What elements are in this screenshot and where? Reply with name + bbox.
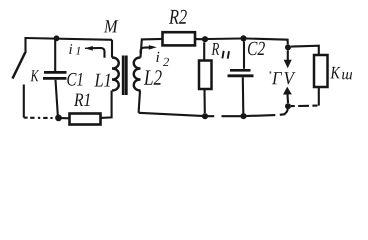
label C1 [67,73,82,86]
wire: node D to corner down to node E [247,39,288,45]
wire: loop2 bottom from L2 to node F [139,113,202,116]
transformer core [122,56,125,96]
node A junction dot bottom of C1 [55,115,62,122]
node E junction above down-arrow [285,44,291,50]
label Rn subscript strokes [222,51,229,59]
wire: node E to Ksh top corner [291,46,319,55]
wire: bottom-left dashed segment [24,117,53,120]
wire: node G toward jog with gap [247,109,288,116]
wire: node C to node D [208,37,241,40]
current arrow i1 [89,48,105,58]
capacitor C2 bottom lead [242,77,245,113]
label L1 [94,74,110,87]
capacitor C1 bottom lead [56,80,58,115]
node F junction below Rn [202,113,208,119]
wire: loop1 left vertical [24,37,26,53]
scan speck near GV label [270,71,272,73]
wire: node A to R1 [61,117,70,119]
label C2 [248,42,265,55]
wire: R2 right to node C [195,38,202,40]
label M [104,20,119,32]
resistor Ksh bottom lead [318,87,320,106]
wire: node F to node G with gap [208,115,241,117]
capacitor C1 plates [44,71,67,74]
wire: loop1 top [26,38,113,40]
node C junction above Rn [202,36,208,42]
label R2 [169,10,187,24]
inductor L1 top lead [111,40,113,58]
resistor Rn [199,61,212,90]
current arrow i2 [141,47,150,53]
switch K lower lead [23,85,25,118]
resistor Ksh [314,55,328,87]
label GV [272,72,296,84]
arrow up from node H [286,94,289,103]
label Ksh [330,67,352,80]
wire: R1 to L1 bottom corner [101,91,112,118]
label i2 [156,52,169,66]
resistor R1 [70,114,101,125]
capacitor C2 plates [230,69,251,72]
label Rn [211,43,219,55]
inductor L2 top lead [141,39,163,58]
inductor L2 coil [134,58,141,91]
label K [30,70,39,81]
node H junction below up-arrow [285,103,291,109]
capacitor C2 top lead [243,42,245,69]
wire: node H to Ksh bottom dash-dot [291,105,318,108]
node D junction above C2 [240,35,246,41]
inductor L1 coil [112,58,119,91]
label i1 [69,44,80,54]
capacitor C1 top lead [54,38,56,71]
resistor R2 [163,32,196,45]
node G junction below C2 [240,113,246,119]
node B junction dot top of C1 [54,35,60,41]
label R1 [74,94,90,107]
arrow down to FV [287,50,289,61]
resistor Rn top lead [203,42,205,60]
resistor Rn bottom lead [203,89,205,113]
inductor L2 bottom lead [139,91,140,113]
label L2 [144,70,162,85]
switch K blade [13,53,26,79]
